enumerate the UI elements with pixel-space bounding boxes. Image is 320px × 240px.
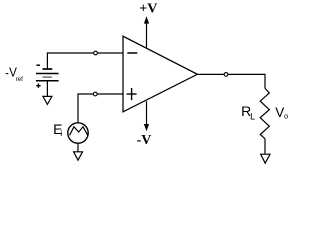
+V supply arrow (146, 22, 148, 48)
wire Ei to ground (77, 143, 79, 152)
resistor RL (260, 88, 269, 138)
svg-text:-V: -V (137, 133, 152, 148)
node inverting input terminal (94, 51, 98, 55)
svg-text:L: L (250, 111, 255, 121)
battery top short plate (43, 68, 53, 70)
svg-text:+V: +V (139, 2, 157, 17)
battery middle short plate (gray) (43, 76, 52, 78)
svg-text:o: o (284, 112, 288, 121)
node non-inverting input terminal (93, 92, 97, 96)
wire resistor to ground (264, 139, 266, 155)
ground below RL (261, 154, 270, 163)
ground below Ei (74, 152, 83, 160)
battery long plate 2 (36, 80, 59, 82)
minus sign at inverting input (127, 52, 137, 54)
wire output (197, 74, 265, 88)
ground below battery (43, 96, 52, 104)
minus label of battery (36, 64, 40, 66)
battery -V_ref (36, 65, 59, 88)
plus sign at non-inverting input (127, 93, 137, 95)
wire battery to ground (46, 81, 48, 97)
triangle wave symbol inside Ei (70, 127, 88, 136)
battery long plate 1 (36, 73, 59, 75)
svg-text:ref: ref (16, 76, 24, 83)
wire inverting input (47, 53, 123, 69)
svg-text:V: V (275, 105, 284, 120)
node output terminal (224, 73, 228, 77)
label -Vref (6, 73, 9, 75)
plus label of battery (36, 85, 40, 87)
-V supply arrow (146, 101, 148, 126)
svg-text:i: i (60, 129, 62, 138)
source Ei (triangle-wave generator) (68, 123, 88, 143)
wire non-inverting input (78, 94, 123, 123)
op-amp U1 (123, 36, 197, 112)
